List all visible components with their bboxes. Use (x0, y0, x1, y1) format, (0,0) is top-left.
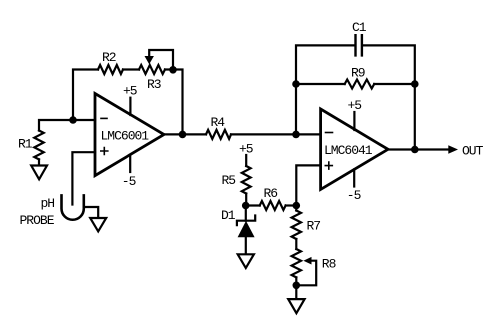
U2 minus input symbol (326, 132, 333, 134)
U1 -5 power pin (129, 155, 131, 172)
svg-text:LMC6001: LMC6001 (101, 129, 150, 144)
wire probe to ground (84, 207, 98, 218)
svg-text:R2: R2 (102, 50, 116, 65)
svg-text:-5: -5 (347, 188, 361, 203)
ground probe (90, 218, 106, 231)
capacitor C1 (356, 35, 362, 55)
wire feedback left vertical from inverting node up to R2 (73, 70, 98, 121)
svg-text:+5: +5 (239, 142, 253, 157)
R8 wiper arrow (303, 257, 311, 265)
svg-text:D1: D1 (221, 208, 236, 223)
resistor R5 (242, 166, 251, 194)
resistor R1 (34, 131, 43, 160)
wire inverting node to R1 (39, 120, 73, 131)
U1 plus input symbol (101, 148, 108, 155)
wire R6 right (286, 204, 297, 206)
wire C1 left vertical (296, 45, 355, 134)
svg-text:R1: R1 (18, 137, 33, 152)
wire R7 to R8 (295, 239, 297, 249)
wire R7 top (295, 206, 297, 211)
svg-text:R6: R6 (264, 186, 278, 201)
wire R6 left (246, 204, 260, 206)
svg-text:OUT: OUT (462, 144, 484, 159)
wire R4 to U2 inverting input (231, 133, 321, 135)
R3 wiper wire (149, 50, 173, 70)
svg-text:C1: C1 (352, 20, 367, 35)
wire D1 to ground (245, 237, 247, 254)
svg-text:-5: -5 (122, 174, 136, 189)
resistor R4 (206, 130, 231, 139)
U2 -5 power pin (353, 169, 355, 186)
svg-text:PROBE: PROBE (20, 213, 55, 228)
wire R2 to R3 (123, 68, 139, 70)
svg-text:R5: R5 (222, 173, 236, 188)
wire R5 to node (245, 194, 247, 206)
ground R8 (288, 299, 304, 313)
wire R8 bottom to ground (295, 277, 297, 299)
ground D1 (238, 254, 254, 268)
wire R9 left (296, 83, 345, 85)
svg-text:pH: pH (41, 196, 55, 211)
node R9 right junction (411, 80, 419, 88)
node R5/R6/D1 junction (242, 202, 250, 210)
node U2 inverting junction (292, 131, 300, 139)
op-amp U1 LMC6001 (95, 94, 164, 176)
R3 wiper arrow (145, 56, 154, 64)
U1 minus input symbol (101, 117, 107, 119)
potentiometer R8 (292, 249, 301, 277)
wire R3 to feedback corner down to output (165, 70, 183, 135)
U2 +5 power pin (353, 112, 355, 130)
wire R9 right (374, 83, 415, 85)
svg-text:R8: R8 (322, 257, 336, 272)
node U1 output junction (179, 131, 187, 139)
svg-text:+5: +5 (348, 98, 362, 113)
wire C1 right to output vertical (362, 45, 414, 149)
wire U1 output (164, 133, 206, 135)
R8 wiper wire (296, 261, 316, 286)
resistor R7 (292, 211, 301, 240)
svg-text:LMC6041: LMC6041 (324, 143, 373, 158)
potentiometer R3 (139, 65, 165, 74)
node junction inverting input (69, 116, 77, 124)
pH probe body (62, 195, 84, 219)
ground R1 (31, 166, 47, 180)
node R9 left junction (292, 80, 300, 88)
wire U2 non-inverting input (296, 165, 320, 205)
wire D1 anode (245, 206, 247, 221)
node R8 bottom junction (293, 282, 301, 290)
svg-text:R9: R9 (351, 66, 365, 81)
node R6/R7 junction (293, 202, 301, 210)
U2 plus input symbol (325, 162, 332, 169)
node U2 output junction (411, 146, 419, 154)
wire R5 from +5 (245, 155, 247, 166)
wire non-inverting input to probe (72, 152, 95, 204)
wire inverting node to op-amp (73, 119, 95, 121)
node junction R3-wiper (169, 66, 177, 74)
resistor R2 (98, 65, 123, 74)
svg-text:R3: R3 (147, 77, 161, 92)
wire U2 output (388, 148, 449, 150)
svg-text:+5: +5 (123, 83, 137, 98)
svg-text:R7: R7 (307, 219, 321, 234)
zener diode D1 (237, 216, 255, 238)
U1 +5 power pin (129, 98, 131, 115)
OUT arrow (448, 145, 458, 154)
wire R1 to ground (38, 159, 40, 165)
resistor R9 (345, 80, 375, 89)
svg-text:R4: R4 (211, 115, 226, 130)
op-amp U2 LMC6041 (321, 109, 388, 189)
resistor R6 (260, 201, 286, 210)
